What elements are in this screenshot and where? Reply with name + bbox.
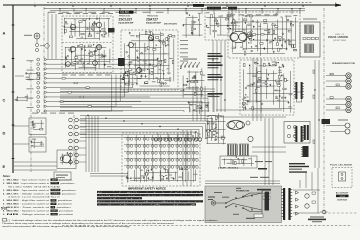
- mid area parts: [188, 101, 210, 114]
- power transformer PT: [281, 188, 292, 220]
- dash-dot boundary right main: [323, 8, 325, 213]
- label phones: [338, 120, 348, 121]
- dash-dot switch boundary: [73, 115, 75, 165]
- eq block left verticals: [48, 12, 56, 59]
- control cluster selector upper: [14, 118, 47, 135]
- label important safety notice: [128, 188, 166, 191]
- main amp micro labels: [230, 14, 278, 15]
- page number: [1, 207, 8, 211]
- transistor TR110: [129, 43, 134, 48]
- lower feed wires: [90, 174, 128, 177]
- vertical interconnect bundle power amp: [252, 118, 286, 185]
- pcb number label C: [228, 7, 237, 10]
- label output stage: [258, 168, 267, 170]
- equalizer under labels: [62, 75, 110, 76]
- headphones jack: [326, 123, 350, 134]
- transistor TR107: [96, 44, 101, 49]
- jack name labels: [27, 60, 34, 108]
- driver transformer T201: [294, 82, 304, 99]
- relay choke block: [301, 146, 309, 157]
- speaker relay contacts: [154, 138, 201, 141]
- label ac outlet unswitched: [336, 192, 349, 202]
- mid horizontal fill wires: [60, 95, 214, 112]
- record selector vertical wires: [128, 135, 194, 182]
- wires above power switch box: [205, 181, 280, 184]
- parts on input wires: [60, 78, 91, 108]
- power indicator box: [54, 172, 71, 180]
- driver board mid parts: [303, 38, 318, 40]
- transistor TR112: [137, 68, 142, 73]
- bias oscillator dense parts: [118, 58, 125, 66]
- relay stub wires: [158, 133, 198, 138]
- bias board box: [220, 156, 257, 168]
- top supply wire 1: [44, 8, 305, 10]
- pcb number label B: [207, 7, 227, 10]
- driver board box: [300, 22, 320, 57]
- power supply caps: [305, 192, 316, 208]
- right vertical rails: [315, 60, 319, 168]
- power supply wires: [293, 168, 320, 213]
- speaker terminals system B: [326, 96, 351, 112]
- label 2SC1096 power sw: [208, 93, 223, 97]
- top wire junction stubs: [59, 8, 300, 14]
- collector wire upper: [60, 88, 215, 90]
- record selector lower parts: [126, 168, 198, 183]
- left ruler line: [12, 5, 14, 174]
- output transistor pair TR208 TR209: [227, 120, 250, 129]
- protection relay box: [284, 122, 310, 144]
- dash-dot boundary left of controls: [30, 60, 32, 172]
- transistor TR104: [66, 62, 71, 67]
- label tape monitor: [183, 59, 197, 60]
- driver board striped blocks: [305, 25, 314, 53]
- rec pb amp mesh: [122, 31, 175, 86]
- dashed corner wire right: [324, 212, 357, 214]
- footnote line 3: [2, 225, 131, 228]
- bias transistor TR210: [248, 136, 253, 141]
- transistor TR108: [93, 61, 98, 66]
- tone amp mesh: [206, 12, 238, 38]
- output section mesh: [242, 61, 293, 113]
- transistor type label stack TR203-TR205: [208, 53, 223, 80]
- label fu w508: [255, 161, 272, 162]
- connector blob right: [322, 119, 331, 124]
- ac plug wire: [320, 210, 328, 214]
- transistor TR105 2SC1327: [96, 22, 101, 27]
- mid vertical wires: [193, 86, 205, 121]
- speaker terminals system A: [326, 73, 351, 89]
- fuse label FU-1: [250, 177, 269, 178]
- input signal wires: [46, 60, 158, 111]
- notes list: [3, 175, 77, 216]
- tape monitor switch contacts: [180, 62, 200, 67]
- top ruler line: [3, 4, 341, 6]
- tone amp enclosure: [205, 8, 239, 40]
- label plug mode: [330, 164, 353, 167]
- power amp parts left: [205, 113, 226, 144]
- record selector enclosure: [122, 133, 200, 186]
- control cluster level pots: [14, 94, 28, 101]
- rec pb amp enclosure: [121, 30, 178, 90]
- label mic: [24, 35, 32, 36]
- type 2SA727: [146, 18, 158, 22]
- switch contact diamond: [44, 43, 50, 49]
- mode switch wires: [78, 120, 86, 162]
- power amp vertical wires: [253, 58, 261, 121]
- equalizer value labels row 2: [62, 8, 113, 9]
- record selector contact grid: [127, 138, 199, 169]
- muting transistor box: [57, 150, 76, 169]
- tape monitor parts: [180, 68, 205, 98]
- equalizer amp mesh upper: [63, 17, 110, 40]
- output section enclosure: [240, 60, 294, 115]
- schematic number label: [119, 10, 134, 14]
- control cluster hum filter: [15, 72, 40, 80]
- transistor TR111: [149, 36, 154, 41]
- transformer primary block: [297, 92, 302, 102]
- footnote ref box: [3, 218, 7, 221]
- top supply wire 2: [50, 10, 305, 12]
- type 2SC1327: [119, 18, 133, 22]
- top ruler tick marks: [34, 3, 337, 7]
- transistor TR101 2SC1327: [70, 24, 75, 29]
- safety warning bold text block: [97, 191, 203, 206]
- jack ground circle 2: [35, 48, 38, 51]
- power switch housing: [265, 192, 270, 211]
- equalizer dense blob: [108, 28, 115, 33]
- signal bus wires lower: [14, 162, 57, 170]
- label sup wer4: [218, 166, 238, 169]
- label TR101 TR105: [119, 16, 131, 18]
- equalizer value labels row 1: [58, 13, 113, 14]
- dash-dot boundary top-left: [43, 7, 45, 112]
- microphone jack J1: [34, 33, 40, 39]
- main amp enclosure: [228, 12, 300, 58]
- equalizer amp enclosure: [62, 16, 113, 73]
- label flat amp mode: [127, 177, 142, 180]
- speaker wiring resistors: [330, 73, 339, 108]
- left ruler letters: [3, 25, 15, 169]
- signal bus wires middle: [80, 116, 216, 139]
- jack ground circle: [35, 43, 38, 46]
- left of tone amp mesh: [182, 12, 202, 38]
- footnote line 2: [2, 222, 175, 225]
- jack area labels: [32, 113, 74, 114]
- ac outlet box: [332, 168, 352, 188]
- label equalizer amp L: [119, 22, 135, 25]
- bus junction dots: [87, 115, 214, 136]
- driver board label: [303, 19, 317, 20]
- emitter resistor block left: [228, 144, 238, 156]
- main amp mesh: [229, 13, 298, 55]
- intermediate signal wires: [60, 97, 150, 111]
- power amp long wires: [216, 110, 286, 117]
- rectifier diodes: [296, 191, 299, 215]
- footnote line 1: [8, 219, 218, 222]
- transistor TR103: [70, 46, 75, 51]
- mode switch contact columns: [69, 118, 79, 164]
- collector wire lower: [60, 91, 215, 93]
- equalizer amp mesh lower: [65, 44, 111, 70]
- label speaker selector: [332, 62, 356, 65]
- power transistor pair TR201 TR202: [230, 31, 252, 42]
- driver transformer T202: [294, 126, 304, 142]
- lower left vertical wires: [183, 130, 191, 186]
- right rail parts: [313, 70, 320, 143]
- phono selector micro labels: [180, 40, 188, 62]
- top micro labels: [48, 12, 164, 13]
- top border dashed wire: [47, 1, 312, 3]
- record selector horizontal wires: [124, 138, 198, 166]
- emitter resistor block right: [240, 144, 249, 156]
- label equalizer amp R: [146, 22, 162, 25]
- ac plug label: [308, 217, 326, 223]
- label power supply: [289, 163, 309, 173]
- input jack terminal column: [37, 58, 46, 112]
- control cluster selector lower: [14, 137, 47, 152]
- power switch inset box: [205, 186, 282, 223]
- mid vertical bundle: [86, 116, 98, 172]
- pcb number label A: [193, 4, 204, 7]
- mic wire: [37, 39, 44, 46]
- vertical interconnect bundle right of labels: [212, 40, 225, 112]
- label TR102 TR106: [147, 16, 159, 18]
- label rec pb amp: [164, 22, 177, 25]
- bottom dashed boundary wire: [62, 225, 352, 227]
- head connection note text: [328, 34, 349, 42]
